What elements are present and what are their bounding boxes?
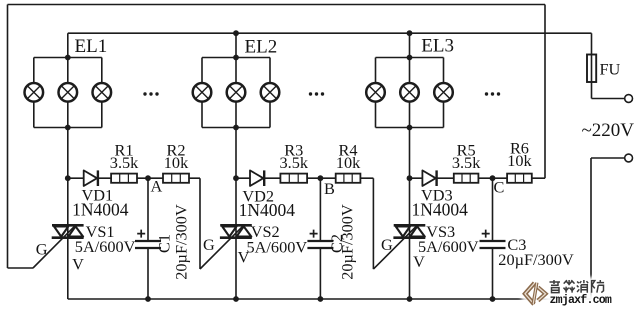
svg-text:1N4004: 1N4004	[72, 200, 129, 220]
svg-text:FU: FU	[600, 60, 621, 79]
svg-text:A: A	[151, 177, 163, 196]
svg-text:10k: 10k	[164, 153, 189, 172]
svg-text:V: V	[72, 254, 84, 273]
svg-text:V: V	[413, 252, 425, 271]
svg-text:20µF/300V: 20µF/300V	[498, 250, 574, 269]
svg-text:EL3: EL3	[421, 36, 454, 57]
svg-text:3.5k: 3.5k	[110, 153, 139, 172]
svg-text:B: B	[324, 179, 335, 198]
svg-text:10k: 10k	[336, 153, 361, 172]
svg-text:5A/600V: 5A/600V	[75, 237, 136, 256]
svg-text:5A/600V: 5A/600V	[247, 237, 308, 256]
svg-text:G: G	[36, 239, 48, 258]
svg-text:5A/600V: 5A/600V	[418, 237, 479, 256]
svg-text:G: G	[203, 235, 215, 254]
svg-text:G: G	[381, 235, 393, 254]
svg-text:3.5k: 3.5k	[452, 153, 481, 172]
svg-text:1N4004: 1N4004	[412, 200, 469, 220]
svg-text:~220V: ~220V	[582, 120, 635, 141]
svg-text:EL2: EL2	[245, 37, 278, 58]
svg-text:20µF/300V: 20µF/300V	[338, 204, 357, 280]
svg-text:3.5k: 3.5k	[280, 153, 309, 172]
svg-text:1N4004: 1N4004	[239, 200, 296, 220]
svg-text:EL1: EL1	[75, 36, 108, 57]
svg-text:zmjaxf.com: zmjaxf.com	[550, 294, 612, 307]
svg-text:20µF/300V: 20µF/300V	[172, 204, 191, 280]
svg-text:10k: 10k	[507, 151, 532, 170]
svg-text:V: V	[238, 247, 250, 266]
svg-text:C: C	[494, 178, 505, 197]
